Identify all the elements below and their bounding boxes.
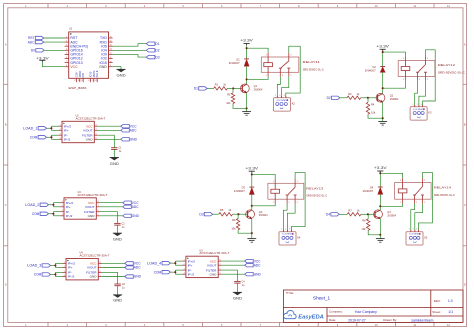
svg-text:1N4007: 1N4007 [365,69,377,72]
svg-text:IP+: IP+ [64,129,69,133]
svg-text:R7: R7 [348,208,352,212]
svg-text:5: 5 [416,202,417,204]
connector K5 CON3 [406,229,428,245]
wire R7 to Q4 base [361,213,368,215]
junction collector node [382,87,384,89]
svg-text:Drawn By:: Drawn By: [383,318,397,322]
svg-text:R4: R4 [371,103,375,107]
svg-text:IP-/2: IP-/2 [188,272,195,276]
svg-text:LOAD_4: LOAD_4 [147,261,161,265]
junction Q3 base node [237,213,239,215]
svg-text:GND: GND [86,138,94,142]
svg-text:GND: GND [254,272,262,276]
svg-text:3: 3 [289,229,290,231]
junction +3.3V branch [251,173,253,175]
wire U2 GND to port [98,138,121,140]
wire COM to U2 IP- [47,136,52,138]
svg-text:ADC: ADC [132,205,139,209]
svg-text:3: 3 [427,58,428,60]
port ADC (U2) [121,129,138,133]
svg-text:7: 7 [100,266,101,268]
wire relay NO contact to K3 pin2 [419,81,426,107]
svg-text:C: C [5,203,7,207]
port LOAD_2 [25,203,48,207]
diode D2 1N4007 [365,65,386,73]
wire relay common to K4 pin3 [291,173,305,232]
port VCC (U5) [245,259,262,263]
wire ground stem [251,233,253,238]
ground (Q4 emitter) [376,239,385,243]
port ADC (U3) [123,205,140,209]
junction emitter/ground node [379,234,381,236]
ground (C3) [113,295,123,303]
svg-text:2: 2 [60,129,61,131]
resistor R4 10k [366,102,376,114]
svg-text:Your Company: Your Company [355,310,378,314]
wire R6 to ground node [238,230,252,233]
svg-text:3: 3 [416,229,417,231]
svg-text:2: 2 [413,229,414,231]
wire relay common to K2 pin3 [286,46,300,98]
svg-text:4: 4 [403,58,404,60]
svg-text:R2: R2 [227,92,231,96]
svg-text:5: 5 [282,75,283,77]
resistor R2 10k [226,92,234,104]
svg-text:COM: COM [32,212,40,216]
svg-text:1.0: 1.0 [448,299,453,303]
svg-text:ACS712ELCTR-30A-T: ACS712ELCTR-30A-T [76,116,106,120]
relay RELAY12 SRD-05VDC-SL-C [398,56,465,81]
diode D1 1N4007 [229,57,250,66]
svg-text:ADC: ADC [28,40,35,44]
resistor R7 1k [347,208,361,216]
wire D0 to U1 GPIO16 [44,49,64,51]
svg-text:3: 3 [297,181,298,183]
svg-text:10k: 10k [361,227,366,231]
svg-text:7: 7 [66,61,67,63]
transistor Q1 2N3904 [240,84,263,93]
svg-text:3: 3 [62,210,63,212]
port LOAD_4 [147,261,170,265]
svg-text:1N4007: 1N4007 [234,190,246,193]
wire U2 VIOUT to port ADC [98,129,121,131]
svg-text:K2: K2 [292,101,296,105]
svg-text:2: 2 [184,264,185,266]
svg-text:16: 16 [110,36,112,38]
power +3.3V (RELAY12) [376,44,390,51]
wire +3.3V rail to D1 [246,45,248,59]
wire D2 to R3 [340,97,347,99]
svg-text:D3: D3 [155,55,159,59]
svg-text:3: 3 [60,134,61,136]
svg-text:VCC: VCC [70,65,78,69]
junction (LOAD_3) [54,264,56,266]
svg-text:4: 4 [184,273,185,275]
svg-text:3: 3 [66,45,67,47]
wire U5 GND to port [222,273,245,275]
port D4 [326,213,339,217]
svg-text:4: 4 [273,181,274,183]
svg-text:1: 1 [266,75,267,77]
port GND (U2) [121,138,138,142]
svg-text:GND: GND [99,65,107,69]
svg-text:IP+: IP+ [68,266,73,270]
wire C1 to ground [113,149,115,157]
svg-text:7: 7 [220,264,221,266]
svg-text:GND: GND [134,275,142,279]
svg-text:2019-07-27: 2019-07-27 [348,318,365,322]
connector K3 CON3 [410,104,432,120]
junction emitter/ground node [382,117,384,119]
port RST [28,36,44,40]
svg-text:1: 1 [60,125,61,127]
svg-text:4: 4 [66,49,67,51]
port COM (U4) [34,273,51,277]
port GND (U4) [125,275,142,279]
svg-text:D0: D0 [31,49,35,53]
svg-text:GND: GND [90,275,98,279]
relay RELAY14 SRD-05VDC-SL-C [395,178,455,204]
svg-text:2: 2 [290,75,291,77]
junction (COM U3) [52,213,54,215]
svg-text:B: B [5,123,7,127]
svg-text:2: 2 [62,205,63,207]
svg-text:COM: COM [34,273,42,277]
resistor R8 10k [361,218,369,230]
svg-text:samiulextreem: samiulextreem [411,318,433,322]
wire Q2 emitter to ground [382,102,384,118]
svg-text:TITLE:: TITLE: [286,291,294,295]
power +3.3V (RELAY13) [246,166,260,173]
junction Q4 base node [367,213,369,215]
wire +3.3V branch to relay coil [252,174,275,179]
svg-text:ADC: ADC [134,266,141,270]
svg-text:C: C [464,203,466,207]
svg-text:2: 2 [427,79,428,81]
svg-text:8: 8 [66,65,67,67]
svg-text:5: 5 [220,273,221,275]
svg-text:R1: R1 [215,82,219,86]
wire U3 GND to port [100,215,123,217]
svg-text:R8: R8 [362,218,366,222]
ground (U1 GND) [116,69,126,77]
junction +3.3V branch [379,172,381,174]
svg-text:GND: GND [233,297,243,301]
svg-text:1N4007: 1N4007 [362,190,374,193]
svg-text:K3: K3 [428,110,432,114]
svg-text:8: 8 [220,260,221,262]
wire Q1 emitter to ground [246,93,248,109]
svg-text:19: 19 [81,80,83,82]
svg-text:2: 2 [285,229,286,231]
junction collector node [379,205,381,207]
wire base node to R2 [232,88,234,92]
diode D4 1N4007 [362,185,383,194]
wire +3.3V rail to D3 [251,173,253,187]
wire C3 to ground [117,286,119,295]
svg-text:D2: D2 [155,49,159,53]
ground (Q3 emitter) [247,239,256,243]
wire base node to R8 [367,214,369,219]
svg-text:Sheet_1: Sheet_1 [313,296,331,301]
svg-text:IP-/2: IP-/2 [66,214,73,218]
svg-text:1: 1 [403,79,404,81]
svg-text:U1: U1 [69,26,73,30]
transistor Q3 2N3904 [246,210,268,219]
power +3.3V (U1 VCC) [36,56,50,62]
wire relay NO contact to K4 pin2 [287,204,295,232]
port D1 [194,87,207,91]
wire relay NC contact to K2 pin1 [277,77,280,98]
transistor Q2 2N3904 [376,93,399,102]
svg-text:12: 12 [110,53,112,55]
wire U5 VCC to port [222,260,245,262]
junction +3.3V branch [246,47,248,49]
svg-text:2: 2 [424,202,425,204]
svg-text:2: 2 [279,95,280,97]
svg-text:LOAD_2: LOAD_2 [25,203,39,207]
wire relay coil return to collector [247,77,269,80]
svg-text:1: 1 [281,229,282,231]
svg-text:K5: K5 [424,235,428,239]
relay RELAY11 SRD-05VDC-SL-C [261,53,323,77]
wire U2 FILTER to capacitor C1 [98,135,115,148]
svg-text:2: 2 [66,40,67,42]
wire U4 VCC to port [102,262,125,264]
wire base node to R4 [367,98,369,103]
wire U1 GND to ground [113,67,121,70]
power +3.3V (RELAY11) [240,39,254,46]
svg-text:10k: 10k [226,101,231,105]
junction (COM U2) [50,136,52,138]
ground (Q1 emitter) [242,112,251,116]
wire +3.3V to U1 VCC [42,62,64,67]
wire COM to U3 IP- [49,213,54,215]
svg-text:SRD-05VDC-SL-C: SRD-05VDC-SL-C [303,67,324,71]
svg-text:D1: D1 [236,57,240,61]
svg-text:COM: COM [30,135,38,139]
svg-text:COM: COM [154,270,162,274]
wire relay coil return to collector [380,204,402,207]
svg-text:7: 7 [98,205,99,207]
svg-text:IP+: IP+ [66,205,71,209]
port D1 (IO5) [146,42,159,46]
wire +3.3V rail to D4 [379,173,381,187]
svg-text:5: 5 [100,275,101,277]
wire C2 to ground [116,225,118,233]
wire relay coil return to collector [383,81,406,89]
svg-text:1: 1 [273,202,274,204]
ground (Q2 emitter) [378,122,387,126]
svg-text:R6: R6 [232,218,236,222]
svg-text:RELAY13: RELAY13 [306,186,323,190]
svg-text:3: 3 [290,55,291,57]
wire ADC to U1 [44,41,65,43]
svg-text:2: 2 [64,266,65,268]
junction Q2 base node [367,97,369,99]
wire R5 to Q3 base [233,213,239,215]
wire U5 VIOUT to port ADC [222,264,245,266]
svg-text:SRD-05VDC-SL-C: SRD-05VDC-SL-C [438,70,465,74]
wire LOAD_3 to U4 IP+ [51,264,56,266]
svg-text:SRD-05VDC-SL-C: SRD-05VDC-SL-C [434,193,455,197]
diode D3 1N4007 [234,186,255,195]
svg-text:3: 3 [184,269,185,271]
wire U3 VCC to port [100,202,123,204]
svg-text:2: 2 [417,104,418,106]
svg-text:8: 8 [98,201,99,203]
svg-text:ACS712ELCTR-30A-T: ACS712ELCTR-30A-T [78,193,108,197]
wire U3 VIOUT to port ADC [100,206,123,208]
port VCC (U4) [125,262,142,266]
wire relay NC contact to K4 pin1 [283,204,287,232]
wire +3.3V branch to relay coil [380,173,402,178]
svg-text:GND: GND [110,162,120,166]
svg-text:2N3904: 2N3904 [254,88,263,91]
wire +3.3V rail to D2 [382,51,384,67]
svg-text:R3: R3 [348,92,352,96]
port D3 (IO0) [146,55,159,59]
svg-text:MOSI: MOSI [92,70,96,77]
port COM (U3) [32,212,49,216]
port D2 [327,96,340,100]
wire LOAD_1 to U2 IP+ [47,127,52,129]
junction emitter/ground node [246,107,248,109]
power +3.3V (RELAY14) [374,166,388,173]
resistor R5 1k [219,208,233,216]
svg-text:RELAY11: RELAY11 [303,60,320,64]
svg-text:VIOUT: VIOUT [207,263,217,267]
svg-text:18: 18 [78,80,80,82]
wire RST to U1 [44,37,65,39]
svg-text:RELAY12: RELAY12 [438,63,455,67]
svg-text:4: 4 [266,55,267,57]
svg-text:MISO: MISO [78,71,82,78]
wire ground stem [379,235,381,239]
svg-text:+3.3V: +3.3V [246,166,260,170]
svg-text:5: 5 [419,79,420,81]
svg-text:GND: GND [117,74,127,78]
svg-text:D3: D3 [242,186,246,190]
wire U2 VCC to port [98,125,121,127]
svg-text:IP-/2: IP-/2 [64,138,71,142]
port VCC (U2) [121,124,138,128]
svg-text:6: 6 [220,269,221,271]
junction (COM U4) [54,273,56,275]
port COM (U2) [30,135,47,139]
relay RELAY13 SRD-05VDC-SL-C [268,179,327,204]
svg-text:8: 8 [100,262,101,264]
wire R4 to ground node [368,114,383,118]
svg-text:5: 5 [289,202,290,204]
svg-text:1: 1 [64,262,65,264]
wire U5 FILTER to capacitor C4 [222,270,238,281]
wire relay NC contact to K3 pin1 [415,81,418,107]
svg-text:14: 14 [110,45,112,47]
capacitor C2 1u [114,222,125,228]
wire ground stem [246,108,248,111]
current sensor U2 ACS712ELCTR-30A-T [59,114,106,142]
wire Q4 emitter to ground [379,219,381,235]
svg-text:+3.3V: +3.3V [240,39,254,43]
wire R3 to Q2 base [361,97,368,99]
svg-text:D4: D4 [326,213,330,217]
svg-text:2N3904: 2N3904 [259,214,268,217]
svg-text:+3.3V: +3.3V [374,166,388,170]
svg-text:GND: GND [88,214,96,218]
svg-text:6: 6 [98,210,99,212]
svg-text:D: D [5,283,7,287]
wire D2 to Q2 collector [382,72,384,93]
svg-text:Date:: Date: [329,318,336,322]
svg-text:5: 5 [98,214,99,216]
wire R2 to ground node [233,104,247,109]
svg-text:B: B [464,123,466,127]
svg-text:1: 1 [413,104,414,106]
ESP8266 module U1 [65,26,113,90]
svg-text:5: 5 [66,53,67,55]
wire D3 to R5 [213,213,219,215]
svg-text:D1: D1 [194,87,198,91]
svg-text:REV:: REV: [434,299,441,303]
svg-text:9: 9 [110,65,111,67]
svg-text:20: 20 [88,80,90,82]
wire R8 to ground node [368,230,380,235]
svg-text:3: 3 [420,104,421,106]
capacitor C1 1u [111,147,122,153]
wire COM to U5 IP- [170,271,175,273]
svg-text:EasyEDA: EasyEDA [298,315,324,321]
wire D1 to Q1 collector [246,66,248,84]
svg-text:1: 1 [275,95,276,97]
svg-text:A: A [464,43,466,47]
svg-text:IP-/2: IP-/2 [68,275,75,279]
wire COM to U4 IP- [51,273,56,275]
wire Q3 emitter to ground [251,219,253,234]
wire U4 VIOUT to port ADC [102,267,125,269]
svg-text:17: 17 [74,80,76,82]
wire relay NC contact to K5 pin1 [411,204,415,232]
svg-text:6: 6 [100,271,101,273]
junction (LOAD_4) [174,262,176,264]
wire U4 FILTER to capacitor C3 [102,272,118,284]
svg-text:GND: GND [113,299,123,303]
svg-text:SRD-05VDC-SL-C: SRD-05VDC-SL-C [306,194,327,198]
svg-text:2N3904: 2N3904 [390,98,399,101]
svg-text:ESP_8266: ESP_8266 [69,86,87,90]
svg-text:4: 4 [62,214,63,216]
wire ground stem [382,118,384,121]
svg-text:GND: GND [130,138,138,142]
svg-text:1: 1 [66,36,67,38]
svg-text:LOAD_3: LOAD_3 [27,264,41,268]
current sensor U4 ACS712ELCTR-30A-T [63,252,110,280]
svg-text:10: 10 [110,61,112,63]
ground (C1) [110,157,120,166]
port ADC [28,40,44,44]
svg-text:4: 4 [60,138,61,140]
port GND (U5) [245,272,262,276]
svg-text:VIOUT: VIOUT [87,266,97,270]
capacitor C4 1u [234,280,245,286]
port D3 [199,212,212,216]
svg-text:8: 8 [96,125,97,127]
wire relay NO contact to K5 pin2 [415,204,423,232]
capacitor C3 1u [114,283,125,289]
wire D1 to R1 [207,87,214,89]
junction collector node [246,78,248,80]
svg-text:1/1: 1/1 [448,310,453,314]
